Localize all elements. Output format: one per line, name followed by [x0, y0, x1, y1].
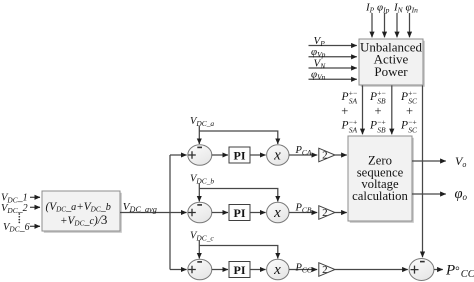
svg-text:P: P [369, 91, 377, 103]
svg-text:SC: SC [408, 125, 418, 134]
svg-text:SB: SB [377, 125, 386, 134]
svg-text:calculation: calculation [352, 189, 408, 203]
svg-text:IP: IP [365, 2, 375, 15]
svg-text:VDC_6: VDC_6 [3, 222, 30, 234]
svg-text:PCA: PCA [295, 145, 312, 157]
svg-text:SA: SA [349, 125, 358, 134]
svg-text:2: 2 [322, 264, 328, 276]
svg-text:φVn: φVn [311, 69, 326, 82]
svg-text:PCB: PCB [295, 203, 312, 215]
svg-text:VDC_c: VDC_c [190, 231, 214, 243]
svg-text:VDC_avg: VDC_avg [123, 201, 157, 214]
svg-text:P: P [369, 120, 377, 132]
svg-text:+: + [374, 104, 381, 118]
svg-text:P: P [341, 91, 349, 103]
svg-text:SA: SA [349, 97, 358, 106]
svg-text:VDC_b: VDC_b [190, 174, 214, 186]
svg-text:φIp: φIp [377, 2, 390, 15]
svg-text:PI: PI [234, 148, 246, 162]
svg-text:PI: PI [234, 263, 246, 277]
svg-text:P: P [400, 120, 408, 132]
svg-text:VDC_2: VDC_2 [1, 203, 28, 215]
svg-text:PCC: PCC [295, 263, 313, 275]
svg-text:φo: φo [455, 186, 468, 202]
svg-text:+: + [341, 104, 348, 118]
svg-text:φIn: φIn [406, 2, 419, 15]
svg-text:x: x [273, 205, 281, 221]
svg-text:x: x [273, 147, 281, 163]
svg-text:IN: IN [393, 2, 404, 15]
svg-text:P°CC: P°CC [445, 263, 474, 281]
svg-text:P: P [400, 91, 408, 103]
svg-text:Vo: Vo [455, 154, 466, 169]
svg-text:VDC_a: VDC_a [190, 116, 214, 128]
svg-text:2: 2 [322, 150, 328, 162]
svg-text:P: P [341, 120, 349, 132]
svg-text:PI: PI [234, 206, 246, 220]
svg-text:x: x [273, 262, 281, 278]
svg-text:2: 2 [322, 207, 328, 219]
svg-text:Power: Power [374, 64, 408, 79]
svg-text:+: + [406, 104, 413, 118]
